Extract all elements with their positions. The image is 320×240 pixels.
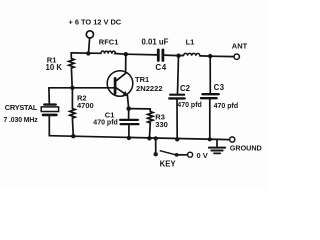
svg-text:2N2222: 2N2222 — [136, 84, 163, 93]
svg-text:0 V: 0 V — [197, 151, 208, 160]
node key rail junction — [154, 136, 158, 140]
node C3 ground junction — [208, 137, 212, 141]
label TR1 2N2222 — [135, 75, 163, 93]
crystal XTAL 7.030 MHz — [41, 105, 58, 115]
switch KEY — [154, 151, 193, 157]
wire top rail left segment — [71, 52, 100, 54]
node C4/L1/C2 junction — [176, 54, 180, 58]
label 0 V — [197, 151, 208, 160]
label C2 value — [177, 84, 202, 109]
wire base rail — [49, 87, 115, 89]
svg-text:GROUND: GROUND — [230, 144, 262, 153]
ground symbol — [209, 140, 225, 154]
label C1 value — [93, 111, 118, 127]
svg-text:470 pfd: 470 pfd — [214, 103, 239, 110]
svg-text:C1: C1 — [105, 111, 115, 120]
node emitter junction — [126, 106, 131, 111]
svg-text:TR1: TR1 — [135, 75, 149, 84]
label ANT — [232, 41, 248, 50]
wire collector junction to C4 — [126, 53, 157, 56]
node base junction R1/R2 — [70, 86, 74, 90]
label R2 value — [77, 94, 94, 110]
node R3 ground junction — [147, 136, 151, 140]
node C2 ground junction — [175, 137, 179, 141]
wire emitter to R3 — [129, 108, 151, 110]
svg-text:7 .030 MHz: 7 .030 MHz — [4, 117, 39, 124]
label +6 TO 12 V DC — [69, 17, 122, 26]
node supply rail junction — [86, 51, 90, 55]
svg-text:0.01 uF: 0.01 uF — [142, 38, 169, 47]
wire RFC1 to collector junction — [115, 53, 126, 56]
wire crystal to ground rail — [48, 116, 50, 136]
label R1 value — [46, 55, 63, 72]
wire supply terminal to top rail — [89, 38, 90, 53]
svg-text:L1: L1 — [186, 37, 195, 46]
inductor L1 — [184, 53, 200, 55]
crystal XTAL wire top — [48, 88, 50, 104]
node collector junction — [124, 52, 128, 56]
svg-text:470 pfd: 470 pfd — [93, 120, 118, 127]
svg-text:4700: 4700 — [77, 101, 94, 110]
node R2 ground junction — [71, 134, 75, 138]
capacitor C3 — [201, 56, 219, 139]
wire ground rail — [49, 136, 229, 140]
label C4 — [155, 63, 166, 72]
label KEY — [160, 159, 177, 168]
wire junction to L1 — [179, 55, 184, 57]
node L1/C3/ANT junction — [208, 54, 212, 58]
capacitor C2 — [169, 56, 184, 140]
svg-text:330: 330 — [155, 120, 168, 129]
svg-text:C3: C3 — [214, 83, 225, 92]
label GROUND — [230, 144, 262, 153]
wire C4 to pi junction — [164, 54, 178, 57]
label 0.01 uF — [142, 38, 169, 47]
resistor R2 — [70, 88, 75, 136]
label C3 value — [214, 83, 239, 110]
svg-text:C2: C2 — [180, 84, 191, 93]
svg-text:KEY: KEY — [160, 159, 177, 168]
wire to antenna terminal — [210, 55, 234, 57]
inductor RFC1 — [101, 51, 116, 54]
transistor TR1 2N2222 — [107, 54, 133, 108]
node +V supply terminal — [86, 31, 93, 38]
svg-text:+ 6 TO 12 V DC: + 6 TO 12 V DC — [69, 17, 122, 26]
svg-text:10 K: 10 K — [46, 63, 63, 72]
capacitor C1 — [120, 109, 138, 138]
wire L1 to antenna junction — [200, 55, 210, 57]
label RFC1 — [99, 37, 119, 46]
capacitor C4 — [158, 50, 163, 61]
svg-text:C4: C4 — [155, 63, 166, 72]
svg-text:ANT: ANT — [232, 41, 248, 50]
resistor R1 — [69, 53, 74, 88]
label R3 value — [155, 112, 168, 129]
svg-text:470 pfd: 470 pfd — [177, 102, 202, 109]
node GROUND terminal — [230, 137, 235, 142]
node C1 ground junction — [127, 136, 131, 140]
resistor R3 — [148, 109, 153, 138]
svg-text:CRYSTAL: CRYSTAL — [5, 103, 38, 112]
wire rail to key pole — [155, 139, 157, 154]
label L1 — [186, 37, 195, 46]
svg-text:RFC1: RFC1 — [99, 37, 119, 46]
node ANT terminal — [234, 54, 239, 59]
label CRYSTAL 7.030 MHz — [4, 103, 39, 124]
